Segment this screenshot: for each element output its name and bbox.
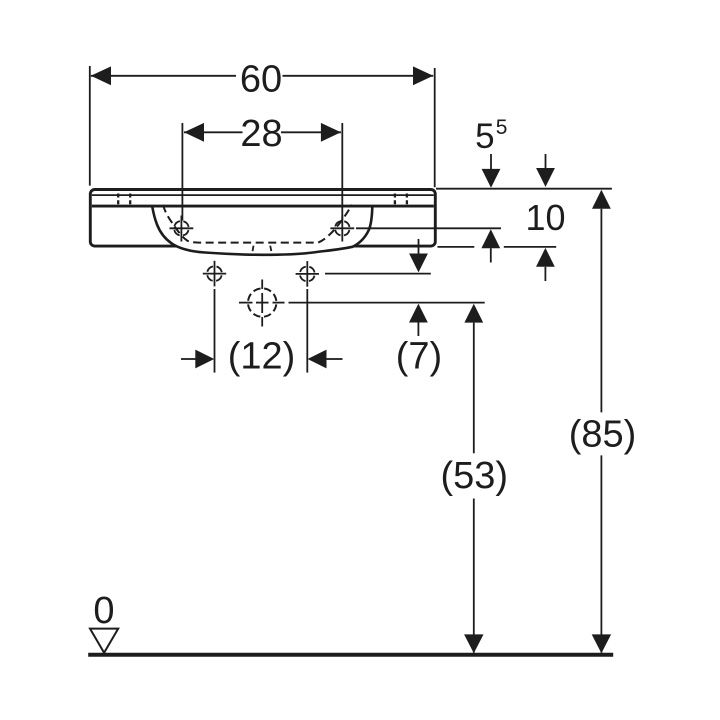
basin bottom reference line [438, 246, 557, 248]
dimension 53 label [441, 455, 509, 497]
dimension 10 label [525, 197, 565, 238]
top surface reference line right [436, 188, 612, 190]
fixing hole extension line right [306, 289, 308, 373]
dimension 60 line [91, 75, 433, 77]
washbasin rim bottom thick line [92, 205, 434, 208]
faucet height reference line [356, 227, 501, 229]
dimension 28 extension line left [181, 123, 183, 221]
svg-text:60: 60 [240, 59, 282, 101]
dimension 60 label [240, 59, 282, 101]
dimension 5.5 lower up-arrow [481, 229, 500, 262]
fixing hole extension line left [214, 289, 216, 373]
dimension 60 arrowhead left [91, 66, 111, 85]
washbasin rim inner top line [92, 194, 434, 196]
dimension 7 upper down-arrow [409, 239, 428, 272]
washbasin outer body [90, 190, 435, 247]
svg-text:5: 5 [475, 117, 494, 156]
dimension 10 upper down-arrow [536, 154, 555, 187]
svg-text:28: 28 [240, 113, 282, 155]
dimension 28 extension line right [341, 123, 343, 221]
dimension 7 lower up-arrow [409, 304, 428, 336]
dimension 28 arrowhead right [321, 123, 341, 142]
bowl inner hidden edge (dashed) [163, 205, 352, 243]
bowl bulge white fill [152, 208, 372, 255]
svg-text:(7): (7) [396, 335, 442, 377]
drain hole symbol [248, 280, 276, 327]
dimension 28 label [240, 113, 282, 155]
dimension 10 lower up-arrow [536, 248, 555, 281]
dimension 60 extension line right [434, 68, 436, 187]
tap hole right (hidden, dashed) [395, 194, 407, 208]
dimension 12 right arrow [308, 350, 343, 369]
zero datum triangle [90, 629, 118, 653]
dimension 5.5 upper down-arrow [482, 154, 501, 188]
dimension 53 upper arrow and line [464, 304, 483, 654]
zero datum label [93, 590, 114, 632]
dimension 12 left arrow [181, 350, 214, 369]
fixing hole right symbol [296, 261, 319, 287]
drain recess hidden edges (dashed) [252, 246, 272, 256]
fixing hole left symbol [203, 261, 226, 287]
dimension 28 arrowhead left [184, 123, 204, 142]
floor line [88, 653, 613, 657]
bowl front edge curve [152, 207, 372, 255]
faucet hole right symbol [330, 216, 354, 242]
dimension 60 extension line left [89, 66, 91, 186]
svg-text:(53): (53) [441, 455, 509, 497]
dimension 7 label [396, 335, 442, 377]
dimension 5.5 label [475, 116, 507, 156]
svg-text:(85): (85) [569, 413, 637, 455]
dimension 85 label [569, 413, 637, 455]
dimension 12 label [228, 335, 296, 377]
faucet hole left symbol [170, 216, 194, 242]
fixing hole level reference line [325, 273, 431, 275]
dimension 28 line [184, 131, 341, 133]
drain level line [239, 302, 485, 304]
dimension 85 upper arrow and line [592, 190, 611, 654]
svg-text:5: 5 [496, 116, 508, 139]
svg-text:10: 10 [525, 197, 565, 238]
svg-text:(12): (12) [228, 335, 296, 377]
tap hole left (hidden, dashed) [118, 194, 130, 208]
dimension 60 arrowhead right [413, 66, 433, 85]
svg-text:0: 0 [93, 590, 114, 632]
